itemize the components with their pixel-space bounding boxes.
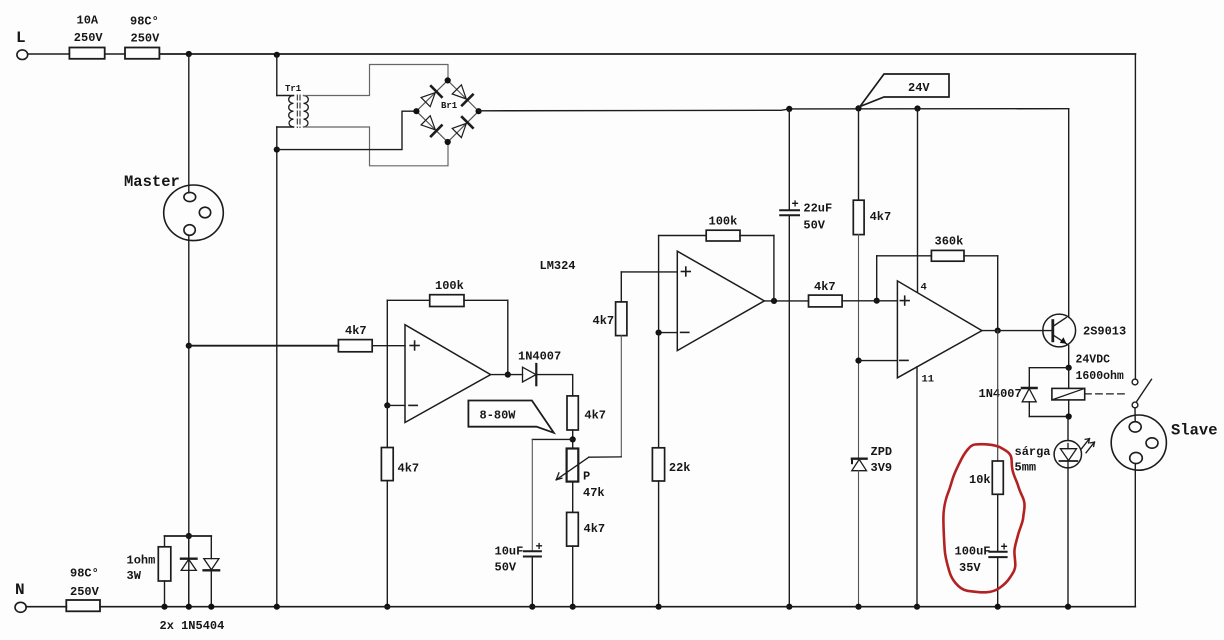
diode D3 1N5404 <box>181 536 197 607</box>
svg-text:LM324: LM324 <box>540 259 576 273</box>
resistor 1ohm 3W <box>127 536 171 607</box>
junction <box>1066 365 1072 371</box>
wire L drop <box>1134 54 1136 379</box>
svg-text:24VDC: 24VDC <box>1076 354 1111 367</box>
fuse F2 98C 250V <box>125 48 159 59</box>
svg-text:10uF: 10uF <box>495 545 524 559</box>
wire <box>276 127 278 607</box>
wire <box>277 111 417 149</box>
LED sarga 5mm <box>1015 417 1095 607</box>
wire <box>659 332 678 334</box>
junction <box>874 298 880 304</box>
diode 1N4007 (flyback) <box>979 368 1069 417</box>
wire N rail <box>100 606 1135 608</box>
svg-text:24V: 24V <box>908 81 930 95</box>
resistor 10k <box>969 331 1003 552</box>
svg-text:22k: 22k <box>669 461 691 475</box>
svg-text:5mm: 5mm <box>1015 461 1037 475</box>
junction <box>186 51 192 57</box>
svg-text:3V9: 3V9 <box>871 461 893 475</box>
diode bridge D-topleft <box>421 86 442 107</box>
capacitor C1 22uF 50V <box>780 109 832 607</box>
svg-text:50V: 50V <box>803 219 825 233</box>
svg-text:4: 4 <box>921 282 927 294</box>
callout 8-80W <box>468 401 553 433</box>
svg-text:P: P <box>583 470 590 484</box>
resistor 100k (op1 feedback) <box>387 279 508 405</box>
terminal N <box>15 602 26 612</box>
svg-text:+: + <box>1001 541 1008 555</box>
svg-text:4k7: 4k7 <box>870 210 892 224</box>
resistor 4k7 (below pot) <box>567 512 606 606</box>
wire <box>276 55 278 96</box>
diode D4 1N5404 <box>204 536 220 607</box>
wire <box>277 126 294 128</box>
svg-text:1ohm: 1ohm <box>127 554 156 568</box>
resistor 4k7 (op1 input) <box>338 324 405 352</box>
junction <box>855 604 861 610</box>
transistor Q1 2S9013 <box>1043 314 1126 347</box>
svg-text:sárga: sárga <box>1015 445 1051 459</box>
junction <box>914 604 920 610</box>
svg-text:+: + <box>792 198 799 212</box>
junction <box>570 604 576 610</box>
flag 24V <box>860 74 949 107</box>
op-amp U1C <box>897 281 982 378</box>
red marker loop <box>943 444 1024 592</box>
svg-text:100uF: 100uF <box>955 545 991 559</box>
svg-text:35V: 35V <box>959 561 981 575</box>
junction <box>855 358 861 364</box>
wire <box>859 360 898 362</box>
relay coil <box>1052 368 1085 417</box>
junction <box>186 343 192 349</box>
wire <box>537 375 573 396</box>
svg-text:98C°: 98C° <box>70 567 99 581</box>
svg-text:+: + <box>536 540 543 554</box>
wire <box>188 235 190 606</box>
wire L rail <box>159 53 1135 55</box>
op-amp U1A <box>405 325 491 423</box>
wire op3 pin11 <box>916 367 918 607</box>
wire <box>387 404 405 406</box>
wire <box>491 374 523 376</box>
wire <box>304 127 449 166</box>
svg-text:4k7: 4k7 <box>584 522 606 536</box>
wire <box>165 535 212 537</box>
capacitor 10uF 50V <box>495 439 543 606</box>
junction <box>570 436 576 442</box>
svg-text:Tr1: Tr1 <box>285 84 302 94</box>
junction <box>914 105 920 111</box>
wire N rail <box>26 606 66 608</box>
svg-text:1600ohm: 1600ohm <box>1076 370 1124 383</box>
wire <box>621 271 677 273</box>
svg-text:Slave: Slave <box>1171 422 1218 440</box>
junction <box>445 139 451 145</box>
diode bridge D-bottomright <box>452 117 473 138</box>
wire <box>188 54 190 193</box>
svg-text:50V: 50V <box>495 561 517 575</box>
svg-text:250V: 250V <box>74 31 104 45</box>
junction <box>995 328 1001 334</box>
svg-text:1N4007: 1N4007 <box>979 387 1022 401</box>
junction <box>656 604 662 610</box>
svg-text:4k7: 4k7 <box>593 314 615 328</box>
junction <box>476 108 482 114</box>
svg-text:98C°: 98C° <box>130 15 159 29</box>
junction <box>384 604 390 610</box>
junction <box>995 604 1001 610</box>
svg-text:250V: 250V <box>131 32 161 46</box>
junction <box>1066 413 1072 419</box>
svg-text:360k: 360k <box>935 235 964 249</box>
zener ZPD 3V9 <box>852 445 892 607</box>
svg-text:ZPD: ZPD <box>871 445 893 459</box>
svg-text:100k: 100k <box>709 215 738 229</box>
wire 24V rail <box>479 109 1069 111</box>
junction <box>771 298 777 304</box>
diode bridge D-topright <box>452 85 473 106</box>
fuse F1 10A 250V <box>69 48 104 59</box>
wire <box>532 438 572 440</box>
svg-text:100k: 100k <box>435 279 464 293</box>
junction <box>445 77 451 83</box>
dashed link relay to switch <box>1085 393 1129 395</box>
wire op3 pin4 <box>917 109 919 293</box>
junction <box>384 402 390 408</box>
terminal L <box>17 50 28 60</box>
svg-text:3W: 3W <box>127 569 142 583</box>
resistor 4k7 (after diode) <box>567 396 606 449</box>
junction <box>505 372 511 378</box>
svg-text:2x 1N5404: 2x 1N5404 <box>160 619 225 633</box>
resistor 100k (op2 feedback) <box>659 215 774 333</box>
junction <box>208 604 214 610</box>
svg-text:4k7: 4k7 <box>398 462 420 476</box>
svg-text:11: 11 <box>922 374 935 386</box>
junction <box>186 604 192 610</box>
svg-text:4k7: 4k7 <box>584 409 606 423</box>
op-amp U1B <box>677 251 764 350</box>
wire <box>304 65 449 96</box>
wire <box>764 300 808 302</box>
svg-text:47k: 47k <box>583 486 605 500</box>
wire <box>189 345 339 347</box>
wire <box>1134 464 1136 607</box>
svg-text:8-80W: 8-80W <box>480 409 517 423</box>
junction <box>786 604 792 610</box>
fuse F3 98C 250V <box>66 567 100 612</box>
wire <box>572 482 574 513</box>
switch <box>1132 379 1151 408</box>
wire <box>277 95 294 97</box>
socket Master <box>164 185 224 241</box>
capacitor 100uF 35V <box>955 541 1008 607</box>
diode bridge D-bottomleft <box>421 116 442 137</box>
junction <box>161 604 167 610</box>
svg-text:Master: Master <box>124 173 180 191</box>
junction <box>656 330 662 336</box>
junction <box>274 604 280 610</box>
svg-text:10k: 10k <box>969 473 991 487</box>
junction <box>529 604 535 610</box>
resistor 4k7 (rail to zener) <box>853 108 891 458</box>
wire <box>105 53 125 55</box>
wire <box>1134 408 1136 422</box>
wire emitter <box>1068 346 1070 368</box>
resistor 4k7 (op1- to N) <box>381 405 419 606</box>
junction <box>786 106 792 112</box>
junction <box>274 147 280 153</box>
resistor 4k7 (wiper to op2+) <box>593 272 627 457</box>
junction <box>274 52 280 58</box>
svg-text:2S9013: 2S9013 <box>1083 325 1126 339</box>
resistor 360k <box>877 235 998 331</box>
junction <box>186 533 192 539</box>
junction <box>413 108 419 114</box>
socket Slave <box>1111 415 1166 470</box>
svg-text:L: L <box>16 29 26 47</box>
svg-text:250V: 250V <box>70 585 100 599</box>
bridge rectifier Br1 <box>416 80 478 142</box>
resistor 4k7 (op2 out to op3) <box>809 280 898 307</box>
svg-text:4k7: 4k7 <box>345 324 367 338</box>
svg-text:10A: 10A <box>77 14 99 28</box>
wire <box>28 53 70 55</box>
junction <box>855 105 861 111</box>
resistor 22k <box>652 333 690 607</box>
svg-text:Br1: Br1 <box>441 101 458 111</box>
wire collector <box>1068 109 1070 317</box>
svg-text:22uF: 22uF <box>803 202 832 216</box>
svg-text:N: N <box>15 581 25 599</box>
diode 1N4007 (op1 output) <box>518 350 561 386</box>
svg-text:1N4007: 1N4007 <box>518 350 561 364</box>
junction <box>1065 604 1071 610</box>
potentiometer P 47k <box>556 449 621 501</box>
wire op3 output to transistor <box>982 330 1053 332</box>
svg-text:4k7: 4k7 <box>814 280 836 294</box>
